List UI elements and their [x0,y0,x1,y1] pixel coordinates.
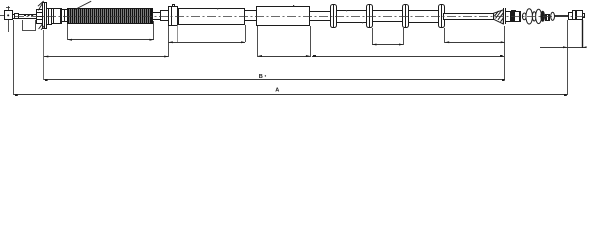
bellows lobe 4 [536,9,542,23]
bracket top tab diagonals [38,1,44,10]
boot leader line [75,1,91,9]
barrel dimension line [540,20,587,48]
grommet ring 1 [331,4,337,28]
B extension line right [504,26,506,80]
rod collar [15,14,19,19]
eyelet pin hole [7,14,9,16]
step collar [62,10,68,23]
conduit fitting with tab [169,5,178,27]
ring4-abutment dimension line [445,41,505,43]
adjuster cylinder [36,10,43,24]
A extension line left [13,20,15,95]
B dimension line [44,79,505,81]
thread length bracket [22,20,36,31]
bellows lobe 3 [532,12,536,21]
small collar after bellows [546,14,550,21]
bellows lobe 1 [522,13,526,20]
rear thin tube [444,14,494,20]
tube1 dimension line [168,41,245,43]
grommet ring 4 [439,4,445,28]
outer conduit tube 2 [257,7,310,26]
bracket bottom tab diagonals [39,24,45,30]
B label [259,74,266,80]
svg-text:A: A [275,88,279,94]
hex fitting [52,8,62,24]
svg-text:B: B [259,74,263,80]
outer conduit tube 1 [179,9,245,25]
A extension line right [567,20,569,95]
abutment flange lines [504,8,506,24]
tube segment [373,11,403,22]
tube after sleeve [310,12,331,21]
barrel nipple front [569,13,573,20]
tube segment [337,11,367,23]
ribbed collar [512,11,516,23]
front section dimension line [44,56,168,58]
barrel end nub [583,14,585,18]
barrel nipple body [573,11,583,21]
abutment block [506,12,511,22]
centerline [15,16,586,18]
B extension line left [43,30,45,80]
tick mark on tube 2 [293,5,294,6]
sleeve dimension line [258,55,310,57]
bracket bushing cylinder [47,8,52,25]
grommet ring 2 [367,4,373,28]
bellows base box [515,11,521,22]
boot dimension line [68,39,154,41]
eyelet centerline cross [0,6,15,32]
tick mark on tube 1 [217,8,218,9]
inner cable wire [554,16,569,17]
neck between tubes [245,11,257,21]
bellows lobe 2 [526,9,533,24]
tick on tube segment top [346,10,347,11]
end disc ferrule [551,12,555,20]
ring4-abutment dimension extension line [444,28,446,43]
medium tube [161,11,169,21]
corrugated boot spring [67,8,152,23]
sleeve dimension extension lines [258,26,311,57]
tube segment [409,11,439,23]
tube1 dimension extension lines [169,25,246,57]
A dimension line [14,94,567,96]
ring2-ring3 dimension extension lines [373,28,404,45]
boot dimension extension lines [68,21,154,40]
grommet ring 3 [403,4,409,28]
small tube after boot [153,13,161,20]
rod thread dashes [24,15,34,17]
bellows lobe 5 [541,11,545,21]
tick on tube segment bottom [362,22,363,23]
front rod [13,15,37,19]
ring2-ring3 dimension line [372,44,403,46]
cone clip fitting [494,10,504,24]
eyelet end block [5,11,13,20]
rear long dimension line [312,55,504,57]
mounting bracket plate [43,3,47,29]
